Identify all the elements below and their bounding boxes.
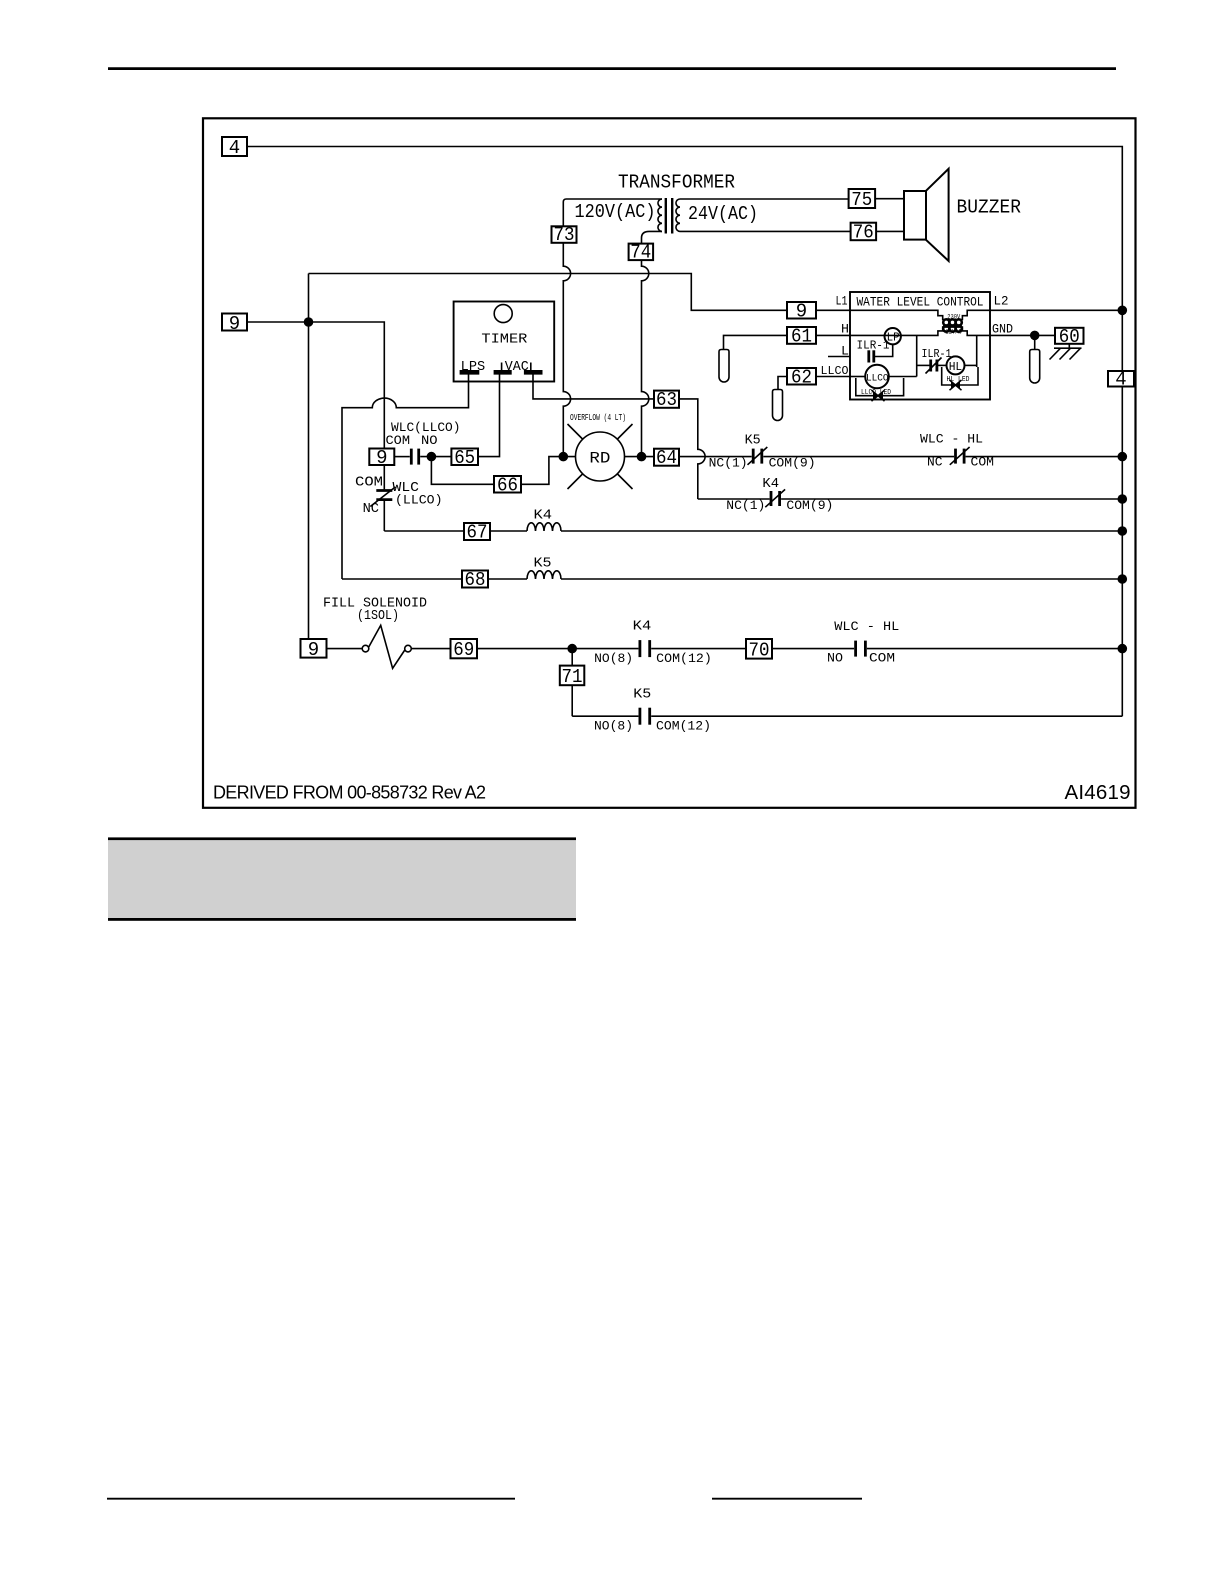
svg-text:K4: K4: [633, 620, 652, 635]
wire top distribution y273: [309, 274, 788, 311]
NO contact WLC(LLCO): [394, 456, 410, 458]
svg-text:COM: COM: [355, 476, 383, 491]
svg-text:LLCO: LLCO: [866, 374, 889, 385]
svg-text:73: 73: [554, 224, 575, 246]
svg-text:NO: NO: [827, 650, 843, 665]
svg-text:RD: RD: [589, 450, 610, 468]
wire ILR-1 NC contact row: [917, 364, 930, 366]
node tag 62: [787, 368, 816, 385]
svg-text:62: 62: [791, 366, 812, 388]
NC contact ILR-1: [929, 360, 932, 372]
terminal VAC2: [524, 370, 543, 375]
wire 12VAC to HL circuit: [976, 335, 978, 367]
wire WLC-HL COM to right rail: [966, 456, 1123, 458]
svg-text:9: 9: [229, 313, 240, 335]
wire coil K4 to right rail: [561, 530, 1122, 532]
wire solenoid to 69: [411, 648, 450, 650]
svg-text:63: 63: [656, 389, 677, 411]
node tag 61: [787, 327, 816, 344]
wire RD to 64: [625, 456, 655, 458]
svg-text:COM: COM: [386, 433, 411, 448]
svg-text:COM(9): COM(9): [786, 498, 833, 513]
wire 9 to solenoid: [327, 648, 363, 650]
NC contact WLC-HL: [954, 449, 957, 464]
svg-text:NC: NC: [927, 455, 943, 470]
wire to K4 NC contact: [698, 498, 770, 500]
svg-text:TRANSFORMER: TRANSFORMER: [618, 172, 735, 194]
wire cap to LP lamp: [874, 344, 893, 356]
svg-text:K5: K5: [633, 688, 651, 703]
wire 75 to buzzer: [875, 198, 904, 200]
NO contact K4: [639, 640, 642, 657]
svg-text:4: 4: [1115, 368, 1126, 390]
svg-text:COM(9): COM(9): [769, 456, 816, 471]
node tag 9 (on WLC(LLCO) column): [369, 449, 394, 466]
svg-text:HL: HL: [949, 361, 963, 374]
wire column to 67: [384, 530, 464, 532]
node tag 9 (left): [222, 314, 247, 331]
buzzer speaker body: [904, 191, 926, 240]
wire from node 9 to WLC(LLCO) column: [247, 322, 384, 449]
LED HL symbol: [951, 381, 960, 390]
wire coil K5 to right rail: [561, 578, 1122, 580]
gray note band: [108, 840, 576, 918]
NO contact K5: [639, 708, 642, 725]
node tag 64: [654, 449, 679, 466]
svg-text:L1: L1: [836, 294, 848, 309]
lamp LP: [885, 328, 901, 344]
internal rail H-GND with notch: [850, 327, 990, 335]
node tag 71: [560, 666, 585, 686]
timer dial circle: [494, 305, 512, 323]
wire column from 73 with hops: [563, 243, 570, 457]
NO contact WLC-HL: [854, 641, 857, 657]
node tag 66: [494, 476, 521, 493]
lamp HL: [947, 356, 965, 374]
node tag 67: [464, 523, 490, 540]
NC contact K5: [752, 449, 755, 464]
node tag 73: [552, 226, 577, 243]
wire 63 to K4 NC row with hop: [679, 399, 705, 499]
node tag 63: [654, 391, 679, 408]
svg-text:WLC - HL: WLC - HL: [920, 432, 983, 447]
svg-text:61: 61: [791, 326, 812, 348]
relay coil K4: [527, 523, 561, 531]
wire: node 4 top rail to right: [247, 147, 1122, 717]
svg-text:L2: L2: [994, 294, 1009, 309]
wire K5 COM to WLC-HL contact: [763, 456, 954, 458]
wire 66 to RD junction: [521, 457, 576, 485]
svg-text:12VAC: 12VAC: [945, 329, 962, 336]
svg-text:76: 76: [853, 222, 874, 244]
svg-text:GND: GND: [992, 322, 1013, 337]
svg-text:64: 64: [656, 447, 677, 469]
wire L stub into WLC: [828, 356, 850, 358]
svg-text:DERIVED FROM 00-858732 Rev A2: DERIVED FROM 00-858732 Rev A2: [213, 783, 486, 803]
node tag 9 (L1): [787, 302, 816, 319]
svg-text:LP: LP: [887, 332, 900, 345]
WLC enclosure box: [850, 292, 990, 400]
node tag 68: [462, 571, 488, 588]
svg-text:NO(8): NO(8): [594, 718, 633, 733]
svg-text:9: 9: [796, 300, 807, 322]
WLC mini transformer coils: [943, 319, 962, 331]
svg-text:NO(8): NO(8): [594, 651, 633, 666]
probe terminal (H): [719, 350, 729, 383]
svg-text:WATER LEVEL CONTROL: WATER LEVEL CONTROL: [857, 296, 984, 310]
svg-text:H: H: [841, 322, 849, 337]
wire to K5 NO contact: [572, 715, 638, 717]
svg-text:K5: K5: [745, 433, 761, 448]
wire 76 to buzzer: [876, 230, 904, 232]
wire 70 to WLC-HL NO contact: [772, 648, 854, 650]
lamp RD rays: [568, 424, 583, 439]
node tag 69: [451, 639, 478, 658]
wire 71 branch down: [571, 649, 573, 717]
LED LLCO symbol: [873, 391, 883, 400]
wire 67 to coil: [490, 530, 527, 532]
timer box: [454, 302, 555, 382]
svg-text:74: 74: [630, 241, 651, 263]
svg-text:65: 65: [454, 447, 475, 469]
junction dot: [567, 644, 577, 654]
lamp LLCO: [850, 376, 865, 378]
buzzer horn: [926, 169, 949, 261]
wire to right rail: [867, 648, 1122, 650]
probe terminal (LLCO): [773, 390, 783, 421]
svg-text:NC: NC: [363, 502, 379, 517]
svg-text:TIMER: TIMER: [481, 332, 528, 348]
svg-text:K4: K4: [534, 509, 553, 524]
wire K4 COM to right rail: [781, 498, 1122, 500]
svg-text:AI4619: AI4619: [1065, 781, 1131, 804]
relay coil K5: [527, 571, 561, 579]
svg-text:4: 4: [229, 137, 240, 159]
wire 61 probe: [724, 335, 788, 350]
svg-text:NO: NO: [421, 433, 438, 448]
svg-text:75: 75: [851, 189, 872, 211]
node tag 4 (top left): [222, 137, 247, 156]
solenoid break symbol 1SOL: [362, 645, 369, 652]
svg-text:OVERFLOW (4 LT): OVERFLOW (4 LT): [570, 412, 626, 423]
capacitor contact ILR-1: [867, 350, 870, 362]
transformer T1 primary winding 120V: [563, 199, 662, 226]
svg-text:71: 71: [562, 666, 583, 688]
node tag 75: [849, 189, 876, 208]
bottom footnote line right: [712, 1498, 862, 1500]
svg-text:66: 66: [497, 474, 518, 496]
wire L2 to right rail: [990, 309, 1122, 311]
wire LPS stem down and left: [342, 375, 469, 580]
svg-text:K4: K4: [762, 477, 779, 492]
HL LED box: [942, 367, 978, 385]
node tag 70: [746, 639, 772, 659]
junction dots around RD: [559, 452, 569, 462]
wire vertical H to LLCO row: [916, 335, 918, 376]
NC contact K4: [770, 491, 773, 506]
LLCO LED box: [856, 378, 904, 396]
svg-text:ILR-1: ILR-1: [922, 347, 952, 361]
wire L1 into WLC: [816, 309, 850, 311]
svg-text:120V(AC): 120V(AC): [575, 201, 656, 223]
svg-text:(1SOL): (1SOL): [357, 609, 399, 624]
node tag 9 (fill): [301, 639, 327, 658]
probe terminal (GND): [1034, 339, 1036, 350]
svg-text:69: 69: [453, 639, 474, 661]
junction dot: [304, 317, 314, 327]
svg-text:9: 9: [376, 447, 387, 469]
wire VAC1 stem down to 65 row: [478, 375, 500, 457]
wire K5 NO to right rail: [651, 715, 1122, 717]
node tag 76: [851, 223, 877, 241]
wire K4 NO to 70: [651, 648, 746, 650]
wire 62 probe: [778, 377, 787, 391]
svg-text:COM: COM: [869, 650, 895, 665]
internal rail L1-L2 with notch: [850, 310, 990, 319]
svg-text:COM(12): COM(12): [656, 718, 711, 733]
wire 66 branch: [431, 457, 494, 485]
wire 64 to K5 NC contact: [679, 456, 752, 458]
lamp RD: [576, 432, 625, 481]
svg-text:WLC - HL: WLC - HL: [834, 619, 899, 634]
svg-text:(LLCO): (LLCO): [395, 493, 443, 508]
left vertical rail to fill solenoid: [308, 274, 310, 640]
svg-text:70: 70: [749, 639, 770, 661]
wire H into WLC: [816, 334, 850, 336]
NC contact WLC (LLCO) on column: [383, 465, 385, 489]
bottom footnote line left: [107, 1498, 515, 1500]
svg-text:68: 68: [465, 569, 486, 591]
ground symbol: [1068, 344, 1070, 348]
wire GND to 60: [990, 334, 1055, 336]
svg-text:9: 9: [308, 639, 319, 661]
svg-text:67: 67: [467, 522, 488, 544]
terminal VAC1: [494, 370, 512, 375]
svg-text:NC(1): NC(1): [709, 456, 748, 471]
svg-text:BUZZER: BUZZER: [957, 197, 1022, 219]
junction dot: [427, 452, 437, 462]
node tag 65: [451, 449, 478, 466]
wire 69 to K4 NO contact: [477, 648, 638, 650]
terminal LPS: [460, 370, 480, 375]
schematic border frame: [203, 118, 1136, 808]
svg-text:COM(12): COM(12): [656, 651, 712, 666]
node tag 4 (right rail): [1108, 371, 1134, 387]
transformer core: [665, 198, 667, 234]
transformer T1 secondary winding 24V: [676, 199, 680, 231]
wire column from 74 with hops: [642, 260, 649, 457]
svg-text:230V: 230V: [947, 314, 960, 321]
wire column to 68: [342, 578, 462, 580]
svg-text:K5: K5: [534, 557, 552, 572]
node tag 60: [1055, 328, 1084, 344]
wire 68 to coil: [488, 578, 527, 580]
wire VAC2 stem down to 63 row: [533, 375, 654, 399]
top rule: [108, 67, 1116, 70]
node tag 74: [629, 244, 654, 261]
svg-text:24V(AC): 24V(AC): [688, 203, 758, 225]
svg-text:NC(1): NC(1): [726, 498, 765, 513]
wire LLCO into WLC: [816, 376, 850, 378]
